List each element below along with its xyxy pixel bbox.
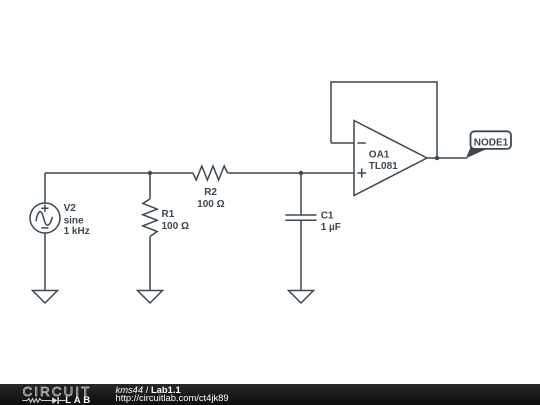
node junction output: [435, 156, 439, 160]
wire C1 to op-amp plus input: [301, 172, 354, 174]
ground V2: [33, 291, 58, 304]
ground C1: [289, 291, 314, 304]
footer bar: [0, 384, 540, 405]
node junction R1 top: [148, 171, 152, 175]
footer credit text: [116, 386, 229, 404]
wire top horizontal left segment: [45, 172, 193, 174]
label OA1 value: [369, 149, 398, 172]
svg-text:sine: sine: [64, 215, 84, 226]
svg-text:1 kHz: 1 kHz: [64, 226, 90, 237]
svg-text:1 µF: 1 µF: [321, 222, 341, 233]
label NODE1: [474, 138, 509, 149]
label R1 value: [162, 209, 189, 232]
svg-text:NODE1: NODE1: [474, 138, 509, 149]
svg-text:V2: V2: [64, 203, 77, 214]
label C1 value: [321, 210, 341, 233]
op-amp OA1: [354, 121, 427, 196]
wire R1 top lead: [149, 173, 151, 199]
svg-text:R2: R2: [204, 187, 217, 198]
wire V2 top lead: [44, 173, 46, 203]
label R2 value: [197, 187, 224, 210]
CircuitLab logo: [0, 384, 110, 405]
svg-text:OA1: OA1: [369, 149, 390, 160]
wire C1 bottom lead: [300, 220, 302, 290]
wire output to NODE1: [437, 157, 467, 159]
node junction C1 top: [299, 171, 303, 175]
svg-text:100 Ω: 100 Ω: [197, 199, 224, 210]
svg-text:TL081: TL081: [369, 161, 398, 172]
svg-text:R1: R1: [162, 209, 175, 220]
resistor R1: [143, 199, 157, 237]
wire op-amp minus input stub: [331, 142, 354, 144]
wire C1 top lead: [300, 173, 302, 215]
svg-text:LAB: LAB: [65, 395, 93, 405]
svg-text:C1: C1: [321, 210, 334, 221]
ground R1: [138, 291, 163, 304]
wire R2 to C1: [228, 172, 302, 174]
label V2 value: [64, 203, 90, 237]
wire op-amp output stub: [427, 157, 437, 159]
wire feedback loop: [331, 82, 437, 158]
resistor R2: [193, 166, 228, 180]
wire R1 bottom lead: [149, 237, 151, 291]
wire V2 bottom lead: [44, 233, 46, 291]
svg-text:100 Ω: 100 Ω: [162, 221, 189, 232]
node NODE1 flag: [466, 131, 511, 158]
voltage source V2: [30, 203, 60, 233]
capacitor C1: [286, 215, 317, 220]
